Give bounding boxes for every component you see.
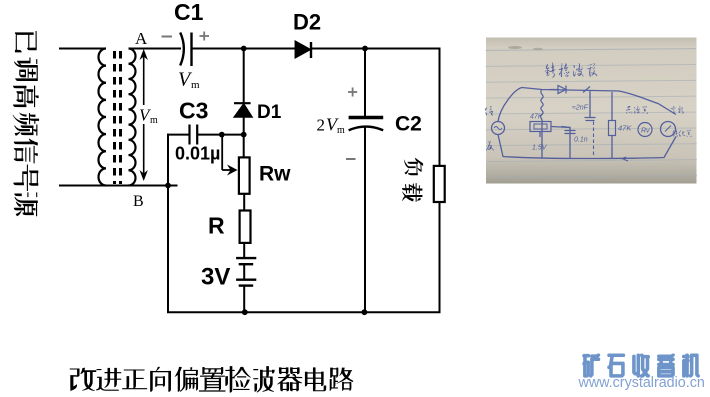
wire: primary bottom lead — [59, 185, 102, 187]
wire: right column down to load — [439, 48, 441, 167]
caption 改进正向偏置检波器电路 — [70, 368, 97, 391]
wire: D1 column top — [243, 49, 245, 104]
label 负载 (load), rotated — [404, 158, 423, 175]
wire: battery to rail — [243, 286, 245, 313]
sketch bottom wire — [498, 135, 676, 159]
capacitor C1 (polarized, curved plate) — [180, 33, 184, 66]
diode D1 — [234, 102, 251, 104]
wire: primary top lead — [59, 48, 106, 50]
C1 plus sign — [200, 35, 210, 37]
Vm arrow (secondary voltage) — [143, 53, 145, 105]
svg-text:m: m — [191, 79, 200, 91]
svg-text:m: m — [150, 115, 158, 126]
wire: D2 to right corner — [311, 48, 440, 50]
wire: left column (C3 branch down to rail) — [167, 134, 169, 313]
wire: D1 to wiper junction — [243, 117, 245, 158]
sketch left source — [492, 122, 505, 135]
svg-text:A: A — [135, 29, 148, 48]
wire: Rw to R — [243, 194, 245, 211]
transformer T1 core — [113, 51, 116, 184]
svg-text:C2: C2 — [395, 113, 422, 136]
sketch transistor box — [530, 122, 551, 132]
battery 3V — [236, 257, 256, 259]
C1 minus sign — [162, 36, 173, 38]
svg-text:m: m — [337, 125, 345, 136]
node: C2 bottom junction — [362, 309, 368, 315]
resistor R — [240, 211, 251, 243]
svg-text:Rw: Rw — [259, 163, 291, 186]
svg-text:C1: C1 — [174, 0, 204, 25]
node: B junction — [165, 183, 171, 189]
node: wiper junction — [219, 132, 225, 138]
svg-text:D2: D2 — [293, 10, 321, 35]
wire: B to left column — [102, 185, 178, 187]
wire: C2 to rail — [364, 128, 366, 313]
node: battery bottom junction — [242, 309, 248, 315]
svg-text:≈2nF: ≈2nF — [572, 105, 589, 112]
label 已调高频信号源 (signal source), rotated column — [15, 31, 37, 52]
transformer T1 secondary winding — [129, 48, 136, 185]
wire: left column to C3 — [167, 134, 189, 136]
C2 plus sign — [348, 91, 357, 93]
wire: C1 to D2 — [192, 48, 296, 50]
sketch right resistor — [609, 121, 616, 136]
node: D1/C3 junction — [241, 132, 247, 138]
sketch title 锗检波管 — [545, 62, 556, 77]
svg-text:C3: C3 — [179, 98, 208, 124]
wire: R to battery — [243, 243, 245, 258]
capacitor C2 (polarized) — [349, 116, 384, 120]
node: D1 top junction — [241, 46, 247, 52]
svg-text:D1: D1 — [257, 102, 282, 123]
potentiometer Rw body — [239, 157, 250, 193]
resistor RL (load box) — [434, 166, 445, 202]
svg-text:R: R — [208, 213, 225, 239]
paper smudges — [508, 46, 522, 49]
photo of hand-drawn schematic — [485, 38, 697, 184]
svg-text:2: 2 — [317, 116, 326, 135]
svg-text:Rv: Rv — [641, 128, 650, 135]
transformer T1 primary winding — [98, 49, 106, 186]
wire: C3 to D1 junction — [197, 134, 244, 136]
diode D2 — [295, 41, 310, 57]
svg-text:1.5V: 1.5V — [532, 145, 548, 152]
wire: bottom rail — [167, 311, 441, 313]
node: C2 top junction — [362, 46, 368, 52]
svg-text:3V: 3V — [201, 264, 230, 291]
svg-text:0.01µ: 0.01µ — [175, 144, 220, 164]
C2 minus sign — [346, 158, 356, 160]
sketch coil — [541, 90, 544, 123]
wire: load to bottom rail — [439, 202, 441, 312]
svg-text:B: B — [133, 193, 144, 210]
sketch top wire with diode — [498, 88, 676, 122]
sketch verticals — [541, 123, 543, 159]
svg-text:www.crystalradio.cn: www.crystalradio.cn — [578, 375, 705, 391]
svg-text:47K: 47K — [530, 114, 543, 121]
sketch mid capacitor — [569, 128, 571, 138]
capacitor C3 — [188, 125, 190, 145]
potentiometer Rw wiper arrow — [221, 135, 223, 170]
svg-text:47K: 47K — [618, 124, 632, 133]
sketch meters — [638, 123, 652, 137]
wire: C2 column top — [364, 49, 366, 117]
svg-text:0.1n: 0.1n — [574, 137, 588, 144]
watermark logo 矿石收音机 — [583, 354, 600, 377]
wire: A to C1 — [129, 48, 181, 50]
